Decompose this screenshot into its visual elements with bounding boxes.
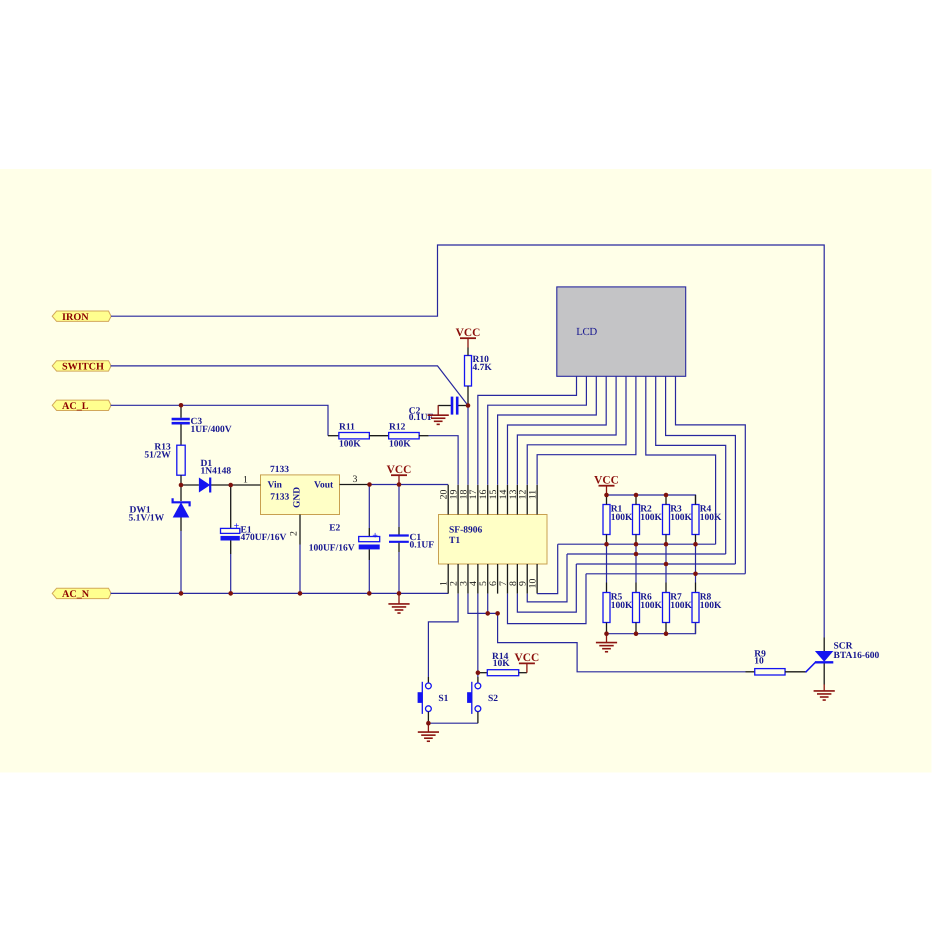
wire LCD pad 10 to resistor row 3 [666,376,736,564]
svg-text:+: + [234,521,240,532]
pin leads R7 [665,623,667,634]
pin leads R5 [606,623,608,634]
svg-text:10: 10 [754,657,764,667]
wire pin4 to S2/R14 [477,594,479,677]
wire pin10 to row1 [537,544,558,593]
wire AC_N rail [111,592,449,594]
svg-text:SF-8906: SF-8906 [449,526,483,536]
wire AC_L net to R11 [111,405,329,435]
wire LCD pad 7 to T1 pin 11 [537,376,636,485]
ground at SCR [814,684,835,700]
wire row1 net (pin10) [558,543,716,545]
junction row3 [664,562,669,567]
wire R12 to pin 19 [429,436,459,485]
junction D1 / E1 / U-7133 Vin [228,483,233,488]
resistor R11 [328,422,369,449]
junction pin6 [495,611,500,616]
wire pin5 stub [487,594,489,614]
wire LCD pad 3 to T1 pin 15 [498,376,597,485]
wire LCD pad 2 to T1 pin 16 [488,376,587,485]
resistor R10 [465,348,493,406]
diode D1 1N4148 [181,459,231,492]
svg-text:470UF/16V: 470UF/16V [241,533,287,543]
svg-text:R11: R11 [339,422,355,432]
pin 18 of T1 [467,485,469,515]
svg-text:VCC: VCC [387,464,412,476]
junction row1 [634,542,639,547]
pin 11 of T1 [536,485,538,515]
pin 1 of 7133 [231,484,261,486]
wire row3 net (pin8) [576,563,735,565]
svg-text:LCD: LCD [576,326,597,338]
wire C1 to AC_N [398,552,400,593]
wire IRON net to SCR anode [111,245,824,638]
resistor R2 [633,505,663,535]
junction AC_L / C3 [179,403,184,408]
wire SWITCH net diagonal to C2 node [111,366,469,406]
junction VCC rail [664,493,669,498]
wire LCD pad 5 to T1 pin 13 [517,376,616,485]
resistor R14 [478,652,527,676]
pin leads R3 [665,495,667,505]
wire VCC rail above R1-R4 [607,495,696,505]
svg-text:100K: 100K [670,513,692,523]
wire pin2 to S1 [428,594,458,677]
junction AC_N / DW1 [179,591,184,596]
power VCC at C1 [387,464,412,485]
svg-text:+: + [372,530,378,541]
junction bottom rail [634,631,639,636]
resistor R1 [603,505,633,535]
svg-text:5.1V/1W: 5.1V/1W [129,514,165,524]
svg-text:100K: 100K [700,513,722,523]
capacitor C1 [389,485,434,553]
svg-text:0.1UF: 0.1UF [410,541,435,551]
pin 15 of T1 [497,485,499,515]
junction S1 / S2 / ground [426,721,431,726]
wire LCD pad 8 to resistor row 1 [646,376,716,544]
pin 9 of T1 [526,564,528,594]
junction row1 [664,542,669,547]
port AC_N [52,588,111,600]
junction AC_N / C1 / ground [397,591,402,596]
svg-text:2: 2 [289,531,300,536]
power VCC at R10 [456,327,481,348]
resistor R4 [692,505,722,535]
pin 10 of T1 [536,564,538,594]
pin 7 of T1 [506,564,508,594]
capacitor C3 [172,405,232,445]
wire bottom rail R5-R8 [607,623,696,634]
pin 3 of 7133 [340,484,370,486]
svg-text:100K: 100K [339,439,361,449]
ground at R5 rail [596,633,617,651]
pin 3 of T1 [467,564,469,594]
wire LCD pad 9 to resistor row 2 [656,376,726,554]
wire pin8 to row3 [517,564,576,612]
pin leads R2 [635,495,637,505]
svg-text:1UF/400V: 1UF/400V [191,425,232,435]
pin 17 of T1 [477,485,479,515]
svg-text:VCC: VCC [594,474,619,486]
capacitor E2 electrolytic [309,485,380,561]
svg-text:7133: 7133 [270,465,289,475]
resistor R5 [603,593,633,623]
wire LCD pad 6 to T1 pin 12 [527,376,626,485]
junction VCC rail [604,493,609,498]
wire C2 node to pin 18 [467,406,469,485]
svg-text:E2: E2 [329,523,340,533]
svg-text:10K: 10K [493,659,511,669]
wire LCD pad 11 to resistor row 4 [676,376,746,574]
ground at AC_N rail [388,593,409,613]
pin 5 of T1 [487,564,489,594]
svg-text:1N4148: 1N4148 [201,466,232,476]
wire DW1 to AC_N [180,531,182,593]
pin 8 of T1 [516,564,518,594]
ground at C2 [428,405,449,424]
junction VCC / C1 [397,482,402,487]
svg-text:100K: 100K [611,513,633,523]
LCD module box [557,287,686,376]
pin 13 of T1 [516,485,518,515]
ground at S1/S2 [418,723,439,741]
wire 7133 GND to AC_N [299,545,301,594]
resistor R12 [369,422,428,449]
svg-text:S2: S2 [488,694,498,704]
junction AC_N / 7133 GND [298,591,303,596]
svg-text:T1: T1 [449,536,460,546]
svg-text:100K: 100K [670,601,692,611]
svg-text:Vin: Vin [268,481,283,491]
svg-text:3: 3 [353,474,358,485]
svg-text:0.1UF: 0.1UF [409,413,434,423]
junction R13 / D1 / DW1 [179,483,184,488]
junction Vout / E2 [367,482,372,487]
svg-text:AC_L: AC_L [62,401,89,412]
IC U/T1 SF-8906 box [439,515,548,565]
pin 2 of 7133 GND [299,515,301,545]
svg-text:100K: 100K [611,601,633,611]
svg-text:51/2W: 51/2W [144,450,171,460]
svg-text:7133: 7133 [270,492,289,502]
resistor R7 [663,593,693,623]
pin leads R4 [695,495,697,505]
junction SWITCH / C2 / R10 / pin18 [466,403,471,408]
capacitor C2 [409,397,468,423]
junction AC_N / E2 lead [367,591,372,596]
wire LCD pad 4 to T1 pin 14 [507,376,606,485]
junction VCC rail [634,493,639,498]
wire E2 to AC_N [368,560,370,593]
pin 19 of T1 [457,485,459,515]
svg-text:IRON: IRON [62,312,89,323]
svg-text:100K: 100K [389,439,411,449]
wire row4 net (pin7) [586,573,745,575]
capacitor E1 electrolytic [221,485,287,554]
wire column vertical [665,544,667,582]
svg-text:100UF/16V: 100UF/16V [309,543,355,553]
resistor R8 [692,593,722,623]
junction row1 [604,542,609,547]
power VCC at R14 [515,652,540,673]
junction pin4 / R14 / S2 [476,670,481,675]
wire S1-S2 bottom [428,722,478,724]
pin 14 of T1 [506,485,508,515]
resistor R9 [746,649,807,675]
svg-text:VCC: VCC [456,327,481,339]
svg-text:100K: 100K [700,601,722,611]
switch S2 [467,682,498,723]
svg-text:R12: R12 [389,422,406,432]
zener diode DW1 [129,485,190,531]
port AC_L [52,400,111,412]
pin leads R1 [606,495,608,505]
junction bottom rail [604,631,609,636]
junction AC_N / E1 [228,591,233,596]
svg-text:100K: 100K [640,601,662,611]
regulator U-7133 box [261,465,340,515]
svg-text:10: 10 [528,579,539,589]
resistor R13 [144,442,185,485]
svg-text:4.7K: 4.7K [473,363,493,373]
junction row1 [693,542,698,547]
svg-text:GND: GND [293,487,303,508]
pin leads R8 [695,623,697,634]
port SWITCH [52,361,111,373]
junction pin5 [485,611,490,616]
port IRON [52,311,111,323]
svg-text:SWITCH: SWITCH [62,362,104,373]
SCR BTA16-600 [806,638,880,685]
wire E1 to AC_N [230,554,232,593]
wire column vertical [695,544,697,582]
pin leads R6 [635,623,637,634]
pin 4 of T1 [477,564,479,594]
wire LCD pad 1 to T1 pin 17 [478,376,577,485]
wire pin9 to row2 [527,554,567,602]
pin 12 of T1 [526,485,528,515]
svg-text:100K: 100K [640,513,662,523]
junction bottom rail [664,631,669,636]
wire pin3 to pin5/pin6 node [468,594,498,614]
wire pin7 to row4 [507,574,586,624]
pin 20 of T1 [447,485,449,515]
wire column vertical [635,544,637,582]
svg-text:S1: S1 [438,694,448,704]
svg-text:Vout: Vout [314,481,334,491]
pin 1 of T1 [447,564,449,594]
wire row2 net (pin9) [567,553,726,555]
pin 6 of T1 [497,564,499,594]
switch S1 [418,682,449,723]
wire Vout to VCC node / pin20 [370,484,449,486]
wire column vertical [606,544,608,582]
svg-text:VCC: VCC [515,652,540,664]
pin 16 of T1 [487,485,489,515]
svg-text:BTA16-600: BTA16-600 [834,651,880,661]
svg-text:11: 11 [528,490,539,500]
pin 2 of T1 [457,564,459,594]
junction row4 [693,572,698,577]
resistor R6 [633,593,663,623]
svg-text:1: 1 [243,474,248,485]
wire pin6 to R9 [498,613,746,671]
resistor R3 [663,505,693,535]
power VCC at R1 [594,474,619,495]
svg-text:AC_N: AC_N [62,589,90,600]
junction row2 [634,552,639,557]
